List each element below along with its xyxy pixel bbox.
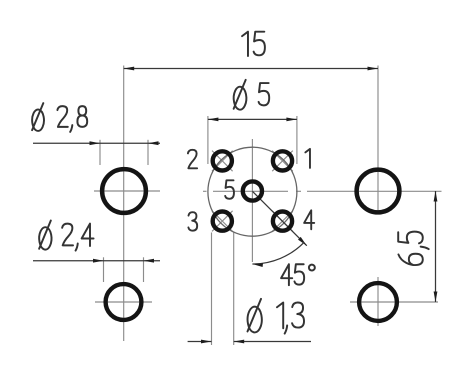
wire 45 degree dimension arc	[252, 242, 304, 264]
wire main horizontal centre line (dash segments)	[203, 190, 207, 192]
wire horizontal centre line right upper circle	[307, 190, 442, 192]
mounting hole top-right dia 2,8	[357, 170, 400, 213]
value label 15	[242, 32, 265, 56]
wire dimension line dia 2,4	[33, 260, 160, 262]
wire extension lines of dia 1,3	[211, 233, 213, 346]
pin hole 3 dia 1,3	[213, 212, 232, 231]
wire horizontal centre line left circles y=191	[94, 190, 160, 192]
wire crosshair of pin hole 1	[272, 151, 293, 172]
value label dia 2,8	[32, 103, 87, 132]
pin label 1	[305, 149, 310, 168]
wire left vertical centre line x=123.7	[123, 66, 125, 342]
pin label 3	[188, 212, 197, 230]
mounting hole top-left dia 2,8	[102, 169, 146, 213]
wire dimension line dia 1,3	[188, 341, 212, 343]
value label dia 1,3	[248, 299, 304, 334]
pin hole 5 dia 1,3	[243, 181, 262, 200]
wire right lower circle vertical crosshair	[377, 277, 379, 326]
wire dimension line 6,5	[435, 191, 437, 302]
wire crosshair of pin hole 3	[212, 211, 233, 232]
value label dia 2,4	[39, 220, 93, 250]
wire main vertical centre line	[251, 139, 253, 262]
pin label 4	[304, 210, 314, 229]
wire 45 degree leader diagonal	[252, 191, 306, 245]
value label 45 degrees	[281, 264, 315, 285]
node connector outline circle dia 5	[208, 147, 297, 236]
wire dimension line dia 2,8	[33, 142, 160, 144]
wire extension lines of dia 5	[207, 116, 209, 164]
pin hole 2 dia 1,3	[213, 151, 232, 170]
pin hole 1 dia 1,3	[273, 151, 292, 170]
wire horizontal centre line right lower circle	[350, 301, 438, 303]
wire dimension line 15	[124, 68, 378, 70]
wire horizontal centre line left lower circle y=302	[95, 301, 152, 303]
wire extension lines of dia 2,8	[99, 140, 101, 165]
value label dia 5	[234, 80, 270, 110]
wire right vertical extension line x=378	[377, 66, 379, 214]
pin label 2	[188, 150, 197, 168]
wire dimension line dia 5	[208, 118, 297, 120]
value label 6,5 (rotated)	[398, 232, 428, 265]
wire extension lines of dia 2,4	[103, 257, 105, 282]
wire crosshair of pin hole 4	[272, 211, 293, 232]
mounting hole bottom-right dia 2,4	[359, 283, 397, 321]
pin hole 4 dia 1,3	[273, 212, 292, 231]
pin label 5	[225, 180, 234, 198]
mounting hole bottom-left dia 2,4	[106, 284, 142, 320]
wire crosshair of pin hole 2	[212, 151, 233, 172]
